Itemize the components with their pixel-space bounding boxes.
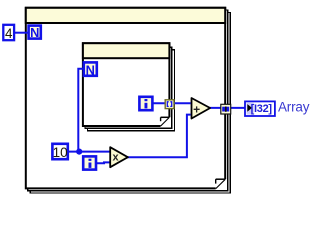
for-loop INNER: main border rectangle (dog-ear corner cut bottom-right) (83, 43, 169, 126)
svg-text:10: 10 (53, 145, 68, 160)
count terminal N (inner loop) (84, 62, 97, 77)
wire: add output through outer tunnel to Array indicator (210, 107, 246, 109)
count terminal N (outer loop) (29, 25, 41, 40)
junction dot on 10-wire (76, 149, 82, 155)
wire: outer i terminal to multiply bottom input (96, 161, 111, 164)
svg-text:+: + (193, 102, 200, 116)
for-loop OUTER: dog-ear page curl bottom-right (216, 179, 226, 188)
wire: multiply output right and up to add bottom input (128, 115, 191, 158)
svg-text:N: N (30, 25, 39, 40)
wire: constant 10 to multiply top input (68, 151, 111, 153)
svg-text:x: x (113, 152, 120, 164)
wire: inner i terminal through indexing tunnel to add top input (153, 102, 191, 104)
indicator Array ([I32] terminal box) (245, 101, 275, 116)
tunnel (indexing) on inner loop right border (165, 100, 174, 109)
multiply node (110, 147, 128, 167)
iteration terminal i (outer loop) (83, 156, 96, 169)
svg-text:[I32]: [I32] (251, 103, 273, 115)
add node (192, 98, 211, 119)
constant 10 (52, 144, 67, 160)
svg-text:N: N (86, 63, 95, 78)
for-loop INNER: dog-ear page curl bottom-right (161, 117, 170, 126)
for-loop OUTER: top label band (cream) (26, 8, 225, 23)
for-loop INNER: stacked page 2 (85, 47, 172, 128)
tunnel on outer loop right border (221, 104, 231, 114)
constant 4 (3, 25, 14, 41)
for-loop OUTER: stacked page 3 (offset border lines right+bottom) (30, 13, 230, 194)
svg-text:Array: Array (278, 100, 310, 115)
wire: junction up to inner loop N terminal (78, 69, 83, 152)
for-loop INNER: top label band (cream) (83, 43, 169, 58)
for-loop OUTER: stacked page 2 (28, 10, 228, 191)
for-loop OUTER: main border rectangle (dog-ear corner cut bottom-right) (26, 8, 225, 189)
wire: constant 4 to outer N terminal (14, 32, 28, 34)
for-loop INNER: stacked page 3 (88, 50, 175, 131)
svg-text:4: 4 (5, 26, 13, 41)
iteration terminal i (inner loop) (139, 97, 152, 110)
